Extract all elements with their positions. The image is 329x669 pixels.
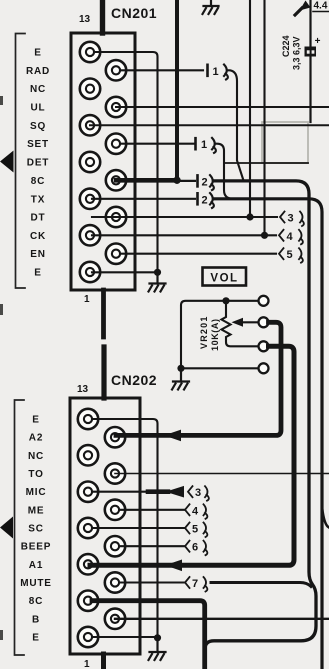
wire CN202 pin1-E to ground line (92, 419, 158, 634)
wire bus D arc to right edge (322, 507, 329, 528)
CN201 pin 7 (80, 152, 100, 172)
svg-text:A1: A1 (29, 560, 43, 571)
label VR201 value (199, 315, 220, 351)
wire vertical net from top to DT junction (249, 0, 251, 217)
connector CN202 stem top (101, 347, 106, 398)
wire pin12-B row to right edge (115, 618, 329, 620)
capacitor C224 vertical feed line (309, 0, 311, 122)
svg-text:6: 6 (192, 542, 198, 554)
svg-text:A2: A2 (29, 433, 43, 444)
CN201 pins 1-13 (80, 42, 126, 282)
wire marker 1 down to net line (228, 70, 244, 180)
marker (6) BEEP (185, 541, 207, 556)
VR201 terminal 3 (259, 341, 269, 351)
wire wiper T2 thick to CN202 A2 (116, 322, 281, 435)
svg-text:SC: SC (28, 524, 44, 535)
svg-text:VR201: VR201 (199, 315, 209, 349)
svg-text:TO: TO (28, 469, 43, 480)
CN201 pin 3 (80, 79, 100, 99)
connector CN201 stem bottom (101, 290, 106, 337)
svg-text:EN: EN (30, 249, 46, 260)
svg-text:C224: C224 (281, 35, 291, 57)
svg-text:5: 5 (192, 524, 198, 536)
CN201 pin 4 (106, 97, 126, 117)
CN201 pin 12 (106, 244, 126, 264)
svg-text:4: 4 (287, 231, 294, 243)
svg-text:1: 1 (213, 66, 219, 78)
wire VR ground to terminal 4 (181, 367, 259, 369)
resistor VR201 body (222, 304, 259, 346)
CN202 pin 4 (105, 463, 125, 483)
CN202 signal labels (20, 415, 52, 644)
connector CN202 box (70, 398, 140, 654)
node junction VR ground (177, 365, 184, 372)
CN202 pin 12 (105, 609, 125, 629)
bracket CN202 group (15, 400, 25, 655)
CN202 pin 1 (78, 409, 98, 429)
connector CN201 stem top (100, 0, 105, 33)
CN202 pin 11 (78, 591, 98, 611)
svg-text:1: 1 (84, 659, 90, 669)
wire pin6-ME to marker 4 (120, 509, 184, 511)
node junction E ground CN202 (154, 634, 161, 641)
svg-text:13: 13 (77, 384, 89, 395)
node junction E/ground CN201 (154, 269, 161, 276)
svg-text:2: 2 (202, 194, 208, 206)
svg-text:CN201: CN201 (111, 5, 157, 21)
marker (7) MUTE (185, 577, 207, 592)
CN202 pin 13 (78, 627, 98, 647)
CN202 pin 5 (78, 482, 98, 502)
marker (3) MIC (188, 486, 209, 501)
wire pin4-UL long row to right edge (116, 106, 329, 108)
CN202 pin 8 (105, 536, 125, 556)
wire pin5-SQ long row to right edge (90, 124, 329, 126)
wire MUTE marker to bus loop (211, 583, 311, 587)
bracket CN201 group (16, 34, 26, 289)
CN202 pin 3 (78, 445, 98, 465)
CN201 pin 6 (106, 134, 126, 154)
svg-text:RAD: RAD (26, 66, 50, 77)
wire pin11-8C thick down (92, 601, 205, 669)
svg-text:3: 3 (195, 487, 201, 499)
svg-text:4: 4 (192, 505, 199, 517)
CN202 pins 1-13 (78, 409, 125, 647)
CN201 pin 2 (106, 60, 126, 80)
wire pin10-DT row (92, 216, 277, 218)
wire pin5-MIC with direction arrow (92, 491, 172, 493)
CN202 pin 10 (105, 572, 125, 592)
svg-text:3,3 6,3V: 3,3 6,3V (292, 36, 302, 70)
arrowhead into A2 (164, 430, 181, 442)
supply arrow to 4.8V (295, 8, 302, 15)
CN201 pin 13 (80, 262, 100, 282)
ground GND VR201 (172, 372, 189, 390)
svg-text:2: 2 (202, 176, 208, 188)
wire pin13-E CN201 to ground junction (92, 271, 158, 273)
svg-text:DET: DET (27, 158, 49, 169)
marker (4) CK (279, 230, 303, 245)
capacitor C224 body (305, 47, 317, 57)
wire junction to marker 2 (177, 180, 195, 182)
VR201 wiper arrow (232, 318, 244, 327)
VR201 terminal 4 (259, 363, 269, 373)
marker (2) TX (198, 193, 214, 208)
marker (3) DT (280, 212, 304, 227)
svg-text:CN202: CN202 (111, 372, 157, 388)
wire pin7-SC to marker 5 (92, 527, 184, 529)
marker (2) 8C (198, 175, 214, 190)
node junction 8C bus (173, 177, 180, 184)
CN201 pin 5 (80, 115, 100, 135)
svg-text:8C: 8C (29, 596, 43, 607)
marker (5) EN (279, 248, 303, 263)
CN202 pin 7 (78, 518, 98, 538)
svg-text:E: E (34, 48, 41, 59)
wire pin4-TO row to right edge (115, 473, 329, 475)
svg-text:SET: SET (27, 139, 49, 150)
CN201 pin 10 (106, 207, 126, 227)
CN201 pin 8 (106, 170, 126, 190)
CN201 pin 1 (80, 42, 100, 62)
svg-text:B: B (32, 614, 40, 625)
wire pin2-RAD to marker 1 (120, 69, 203, 71)
marker (1) SET (196, 138, 216, 153)
connector CN202 stem bottom (101, 654, 106, 669)
wire VR201 top terminal line (181, 301, 259, 365)
wire pin8-BEEP to marker 6 (120, 545, 184, 547)
svg-text:E: E (32, 415, 39, 426)
wire marker 1 SET curve down to TX net (215, 144, 233, 199)
scan edge mark bottom (0, 630, 3, 640)
svg-text:E: E (34, 268, 41, 279)
marker (1) RAD (208, 65, 228, 80)
label VOL box (203, 268, 247, 286)
svg-text:MUTE: MUTE (20, 578, 52, 589)
wire vertical net from top to CK junction (263, 0, 265, 235)
wire TX net to right bus D (214, 199, 322, 669)
marker (5) SC (185, 523, 207, 538)
svg-text:NC: NC (28, 451, 44, 462)
svg-text:5: 5 (287, 249, 293, 261)
svg-text:SQ: SQ (30, 121, 46, 132)
CN201 signal labels (26, 48, 50, 279)
wire 8C net to right bus C (205, 181, 316, 649)
CN202 pin 9 (78, 554, 98, 574)
svg-text:13: 13 (79, 14, 91, 25)
arrowhead into A1 (165, 560, 182, 572)
VR201 terminal 1 (259, 296, 269, 306)
wire CN202 pin13-E to ground junction (92, 636, 158, 638)
scan edge mark mid (0, 304, 3, 315)
svg-text:TX: TX (31, 194, 45, 205)
svg-text:+: + (315, 36, 321, 47)
VR201 terminal 2 (259, 317, 269, 327)
svg-text:DT: DT (31, 213, 46, 224)
marker (4) ME (185, 504, 207, 519)
wire pin9-TX to marker 2 (92, 198, 195, 200)
CN201 pin 11 (80, 225, 100, 245)
wire pin1-E CN201 to ground line (94, 52, 158, 269)
svg-text:E: E (32, 633, 39, 644)
svg-text:1: 1 (84, 294, 90, 305)
CN201 pin 9 (80, 189, 100, 209)
svg-text:8C: 8C (31, 176, 45, 187)
svg-text:MIC: MIC (26, 487, 47, 498)
svg-text:10K(A): 10K(A) (210, 318, 220, 351)
wire net stub y163 (224, 162, 308, 164)
CN202 pin 2 (105, 427, 125, 447)
svg-text:UL: UL (31, 103, 46, 114)
wire pin11-CK row (92, 234, 276, 236)
wire pin8-8C thick to bus junction (116, 178, 177, 183)
ground GND1 below CN201 (149, 275, 166, 292)
wire thick bus vertical from top (175, 0, 179, 180)
svg-text:BEEP: BEEP (21, 542, 51, 553)
wire T3 thick to CN202 A1 (90, 346, 294, 565)
connector CN201 box (71, 33, 135, 290)
svg-text:VOL: VOL (210, 273, 238, 285)
label C224 value (281, 35, 302, 70)
faint component box (partially printed) (262, 122, 308, 163)
svg-text:CK: CK (30, 231, 46, 242)
wire pin12-EN row (120, 253, 276, 255)
node junction DT (246, 213, 253, 220)
svg-text:ME: ME (28, 505, 45, 516)
svg-text:3: 3 (288, 213, 294, 225)
wire pin10-MUTE to marker 7 (120, 581, 184, 583)
CN202 pin 6 (105, 500, 125, 520)
scan edge mark top (0, 96, 3, 105)
svg-text:1: 1 (201, 139, 207, 151)
svg-text:4.4: 4.4 (314, 1, 328, 12)
ground GND below CN202 (149, 641, 166, 660)
node junction VR top (222, 297, 229, 304)
node junction CK (261, 232, 268, 239)
wire pin6-SET to marker 1 (120, 143, 194, 145)
ground GND top (203, 0, 219, 14)
svg-text:NC: NC (30, 84, 46, 95)
svg-text:7: 7 (192, 578, 198, 590)
